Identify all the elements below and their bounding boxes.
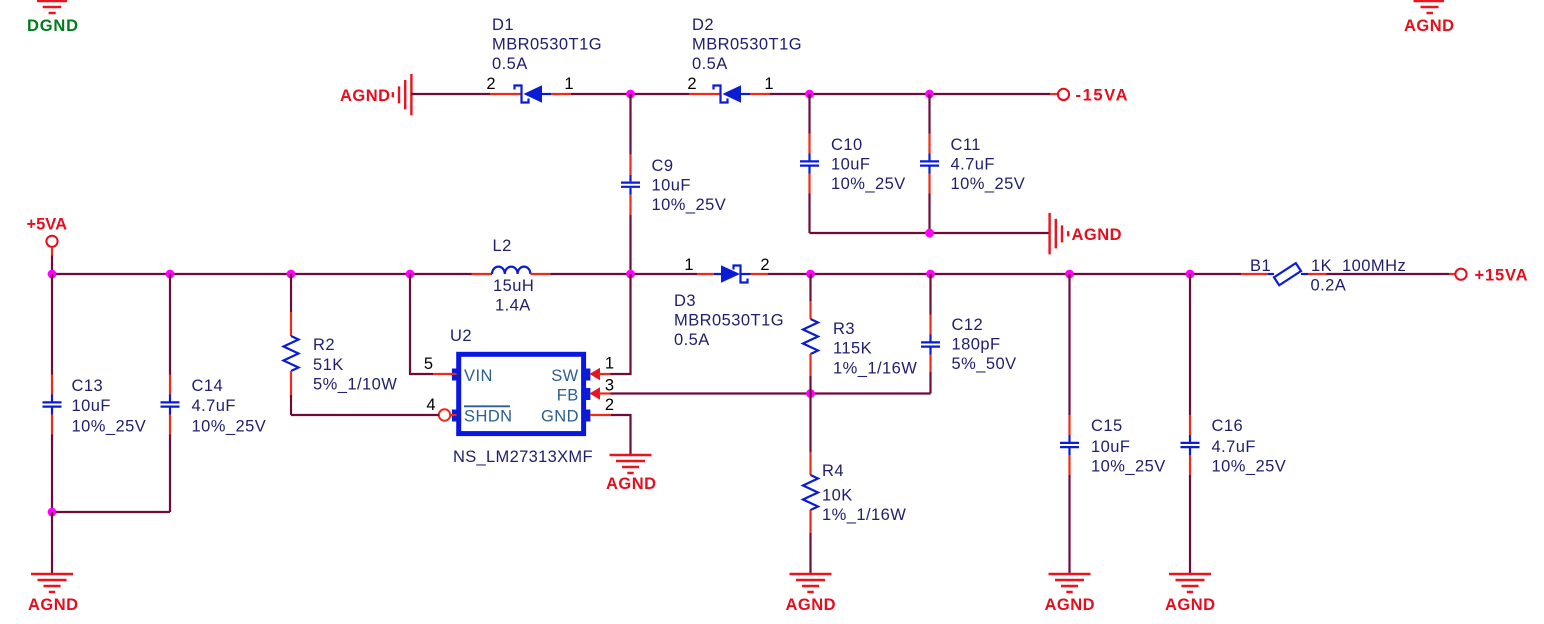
- svg-text:100MHz: 100MHz: [1342, 257, 1406, 275]
- svg-text:10%_25V: 10%_25V: [951, 175, 1026, 193]
- svg-text:0.2A: 0.2A: [1311, 277, 1347, 295]
- junction dot bus at C13: [48, 270, 57, 279]
- svg-text:1%_1/16W: 1%_1/16W: [822, 506, 906, 524]
- junction dot C13 bottom node: [48, 508, 57, 517]
- svg-text:SHDN: SHDN: [464, 407, 513, 425]
- svg-text:L2: L2: [493, 237, 512, 255]
- svg-text:1K: 1K: [1311, 257, 1332, 275]
- svg-text:1.4A: 1.4A: [495, 297, 531, 315]
- svg-text:C15: C15: [1091, 417, 1123, 435]
- port +5VA: [27, 216, 68, 256]
- svg-text:10%_25V: 10%_25V: [831, 175, 906, 193]
- svg-text:C16: C16: [1212, 417, 1244, 435]
- svg-text:AGND: AGND: [606, 475, 656, 493]
- svg-text:1: 1: [564, 75, 573, 93]
- svg-text:+5VA: +5VA: [27, 216, 68, 234]
- svg-text:10%_25V: 10%_25V: [1212, 458, 1287, 476]
- svg-text:C12: C12: [952, 316, 984, 334]
- wire D1 pin 1 to D2 pin 2 (junction with C9 column): [571, 93, 689, 95]
- capacitor C10 (between top rail and AGND rail): [800, 94, 819, 233]
- svg-text:AGND: AGND: [786, 596, 836, 614]
- wire bus to VIN pin 5: [410, 274, 433, 374]
- svg-text:R3: R3: [833, 320, 855, 338]
- svg-text:DGND: DGND: [27, 17, 78, 35]
- svg-text:AGND: AGND: [1404, 17, 1454, 35]
- svg-text:1: 1: [684, 256, 693, 274]
- svg-text:GND: GND: [541, 407, 579, 425]
- ground AGND (vertical-bar symbol left of D1): [340, 74, 411, 116]
- resistor R2 51K: [284, 274, 299, 415]
- svg-text:C9: C9: [652, 157, 674, 175]
- inductor L2 15uH: [472, 267, 551, 274]
- junction dot FB node at R3/R4: [806, 389, 815, 398]
- resistor R3 115K: [803, 274, 818, 394]
- diode D3 MBR0530T1G (Schottky, pointing right): [697, 265, 768, 282]
- svg-text:10%_25V: 10%_25V: [192, 418, 267, 436]
- svg-text:AGND: AGND: [1045, 596, 1095, 614]
- svg-text:10%_25V: 10%_25V: [72, 418, 147, 436]
- junction dot at C9 top / D1-D2 node: [626, 90, 635, 99]
- svg-text:15uH: 15uH: [493, 277, 534, 295]
- diode D1 MBR0530T1G (Schottky, pointing left): [490, 85, 571, 102]
- wire main bus left segment (+5VA node): [52, 273, 472, 275]
- capacitor C14: [161, 274, 180, 512]
- svg-text:C14: C14: [192, 377, 224, 395]
- svg-text:SW: SW: [551, 367, 578, 385]
- pin FB arrow and lead: [590, 387, 611, 399]
- svg-text:MBR0530T1G: MBR0530T1G: [492, 35, 602, 53]
- ground AGND under R4: [786, 574, 836, 614]
- op-amp-style IC U2 NS_LM27313XMF body: [452, 354, 591, 433]
- svg-text:C11: C11: [951, 136, 981, 154]
- svg-text:10uF: 10uF: [652, 177, 691, 195]
- wire L2 to D3 (SW node, junction at x=630.5): [551, 273, 698, 275]
- wire C13 node down to AGND: [51, 512, 53, 574]
- wire C14 bottom to C13 bottom: [52, 511, 170, 513]
- junction dot at C11 top: [925, 90, 934, 99]
- wire D2 pin 1 to -15VA port (junctions at C10, C11): [770, 93, 1050, 95]
- pin SW arrow and lead: [590, 368, 611, 380]
- capacitor C12: [921, 274, 940, 394]
- wire SW pin to bus SW node: [611, 274, 631, 374]
- junction dot bus at C14: [166, 270, 175, 279]
- svg-text:C10: C10: [831, 136, 863, 154]
- svg-text:D2: D2: [692, 16, 714, 34]
- svg-text:FB: FB: [557, 387, 579, 405]
- junction dot bus at VIN stub: [406, 270, 415, 279]
- wire C10/C11 bottoms to AGND bars (y=233): [810, 232, 1050, 234]
- svg-text:1: 1: [605, 355, 614, 373]
- svg-text:B1: B1: [1250, 257, 1271, 275]
- svg-text:2: 2: [486, 75, 495, 93]
- svg-text:AGND: AGND: [340, 87, 390, 105]
- junction dot SW node on bus: [626, 270, 635, 279]
- junction dot bus at C15: [1065, 270, 1074, 279]
- ground DGND (top-left, partially clipped): [27, 1, 78, 35]
- svg-text:+15VA: +15VA: [1475, 267, 1528, 285]
- svg-text:0.5A: 0.5A: [692, 55, 728, 73]
- svg-text:U2: U2: [450, 327, 472, 345]
- ground AGND under C15: [1045, 574, 1095, 614]
- svg-text:10uF: 10uF: [1091, 438, 1130, 456]
- ground AGND (vertical-bar symbol right of C11): [1050, 213, 1122, 255]
- capacitor C13: [43, 274, 62, 512]
- svg-text:5%_50V: 5%_50V: [952, 355, 1017, 373]
- diode D2 MBR0530T1G (Schottky, pointing left): [689, 85, 770, 102]
- resistor R4 10K: [803, 394, 818, 575]
- junction dot bus at R3: [806, 270, 815, 279]
- svg-text:MBR0530T1G: MBR0530T1G: [674, 311, 784, 329]
- junction dot bus at C12: [926, 270, 935, 279]
- capacitor C16: [1181, 274, 1200, 574]
- svg-text:180pF: 180pF: [952, 336, 1001, 354]
- wire FB pin to R3/R4 junction and C12: [611, 392, 931, 394]
- svg-text:10%_25V: 10%_25V: [652, 196, 727, 214]
- junction dot at C11 bottom: [925, 229, 934, 238]
- pin lead SHDN with inversion bubble: [439, 409, 457, 420]
- capacitor C11 (between top rail and AGND rail): [920, 94, 939, 233]
- svg-text:4.7uF: 4.7uF: [951, 155, 995, 173]
- svg-text:VIN: VIN: [464, 367, 493, 385]
- svg-text:NS_LM27313XMF: NS_LM27313XMF: [453, 448, 593, 466]
- wire R2 bottom to SHDN bubble: [291, 414, 439, 416]
- svg-text:4.7uF: 4.7uF: [192, 397, 236, 415]
- svg-text:MBR0530T1G: MBR0530T1G: [692, 35, 802, 53]
- svg-text:C13: C13: [72, 377, 104, 395]
- svg-text:-15VA: -15VA: [1076, 87, 1128, 105]
- svg-text:2: 2: [687, 75, 696, 93]
- port +15VA: [1449, 267, 1528, 285]
- ferrite bead B1 1K 100MHz: [1241, 263, 1327, 285]
- svg-text:D3: D3: [674, 292, 696, 310]
- svg-text:1: 1: [764, 75, 773, 93]
- ground AGND under C16: [1165, 574, 1215, 614]
- junction dot bus at C16: [1186, 270, 1195, 279]
- svg-text:0.5A: 0.5A: [492, 55, 528, 73]
- ground AGND (top-right, partially clipped): [1404, 1, 1454, 35]
- svg-text:5%_1/10W: 5%_1/10W: [313, 376, 397, 394]
- svg-text:4.7uF: 4.7uF: [1212, 438, 1256, 456]
- wire +5VA port to bus: [51, 255, 53, 274]
- pin lead GND: [590, 414, 611, 416]
- svg-text:D1: D1: [492, 16, 514, 34]
- wire B1 to +15VA port: [1327, 273, 1450, 275]
- capacitor C15: [1060, 274, 1079, 574]
- svg-text:51K: 51K: [313, 356, 344, 374]
- svg-text:AGND: AGND: [1072, 226, 1122, 244]
- svg-text:10uF: 10uF: [72, 397, 111, 415]
- pin lead VIN: [433, 373, 457, 375]
- svg-text:1%_1/16W: 1%_1/16W: [833, 359, 917, 377]
- svg-text:115K: 115K: [833, 340, 872, 358]
- ground AGND under U2: [606, 455, 656, 493]
- svg-text:2: 2: [605, 396, 614, 414]
- ground AGND under C13: [28, 574, 78, 614]
- svg-text:0.5A: 0.5A: [674, 331, 710, 349]
- svg-text:AGND: AGND: [1165, 596, 1215, 614]
- capacitor C9 (between D1/D2 node and SW node): [621, 94, 640, 274]
- port -15VA: [1050, 87, 1127, 105]
- svg-text:10uF: 10uF: [831, 155, 870, 173]
- svg-text:10%_25V: 10%_25V: [1091, 458, 1166, 476]
- wire GND pin to AGND: [611, 415, 631, 455]
- svg-text:AGND: AGND: [28, 596, 78, 614]
- wire D3 to B1 (+15V node, junctions at R3, C12, C15, C16): [768, 273, 1241, 275]
- svg-text:R2: R2: [313, 336, 335, 354]
- svg-text:R4: R4: [822, 462, 844, 480]
- junction dot at C10 top: [805, 90, 814, 99]
- svg-text:5: 5: [424, 355, 433, 373]
- svg-text:2: 2: [760, 256, 769, 274]
- svg-text:3: 3: [605, 377, 614, 395]
- svg-text:4: 4: [426, 396, 435, 414]
- wire AGND bars to D1 pin 2 (y=94): [411, 93, 490, 95]
- svg-text:10K: 10K: [822, 486, 853, 504]
- junction dot bus at R2: [287, 270, 296, 279]
